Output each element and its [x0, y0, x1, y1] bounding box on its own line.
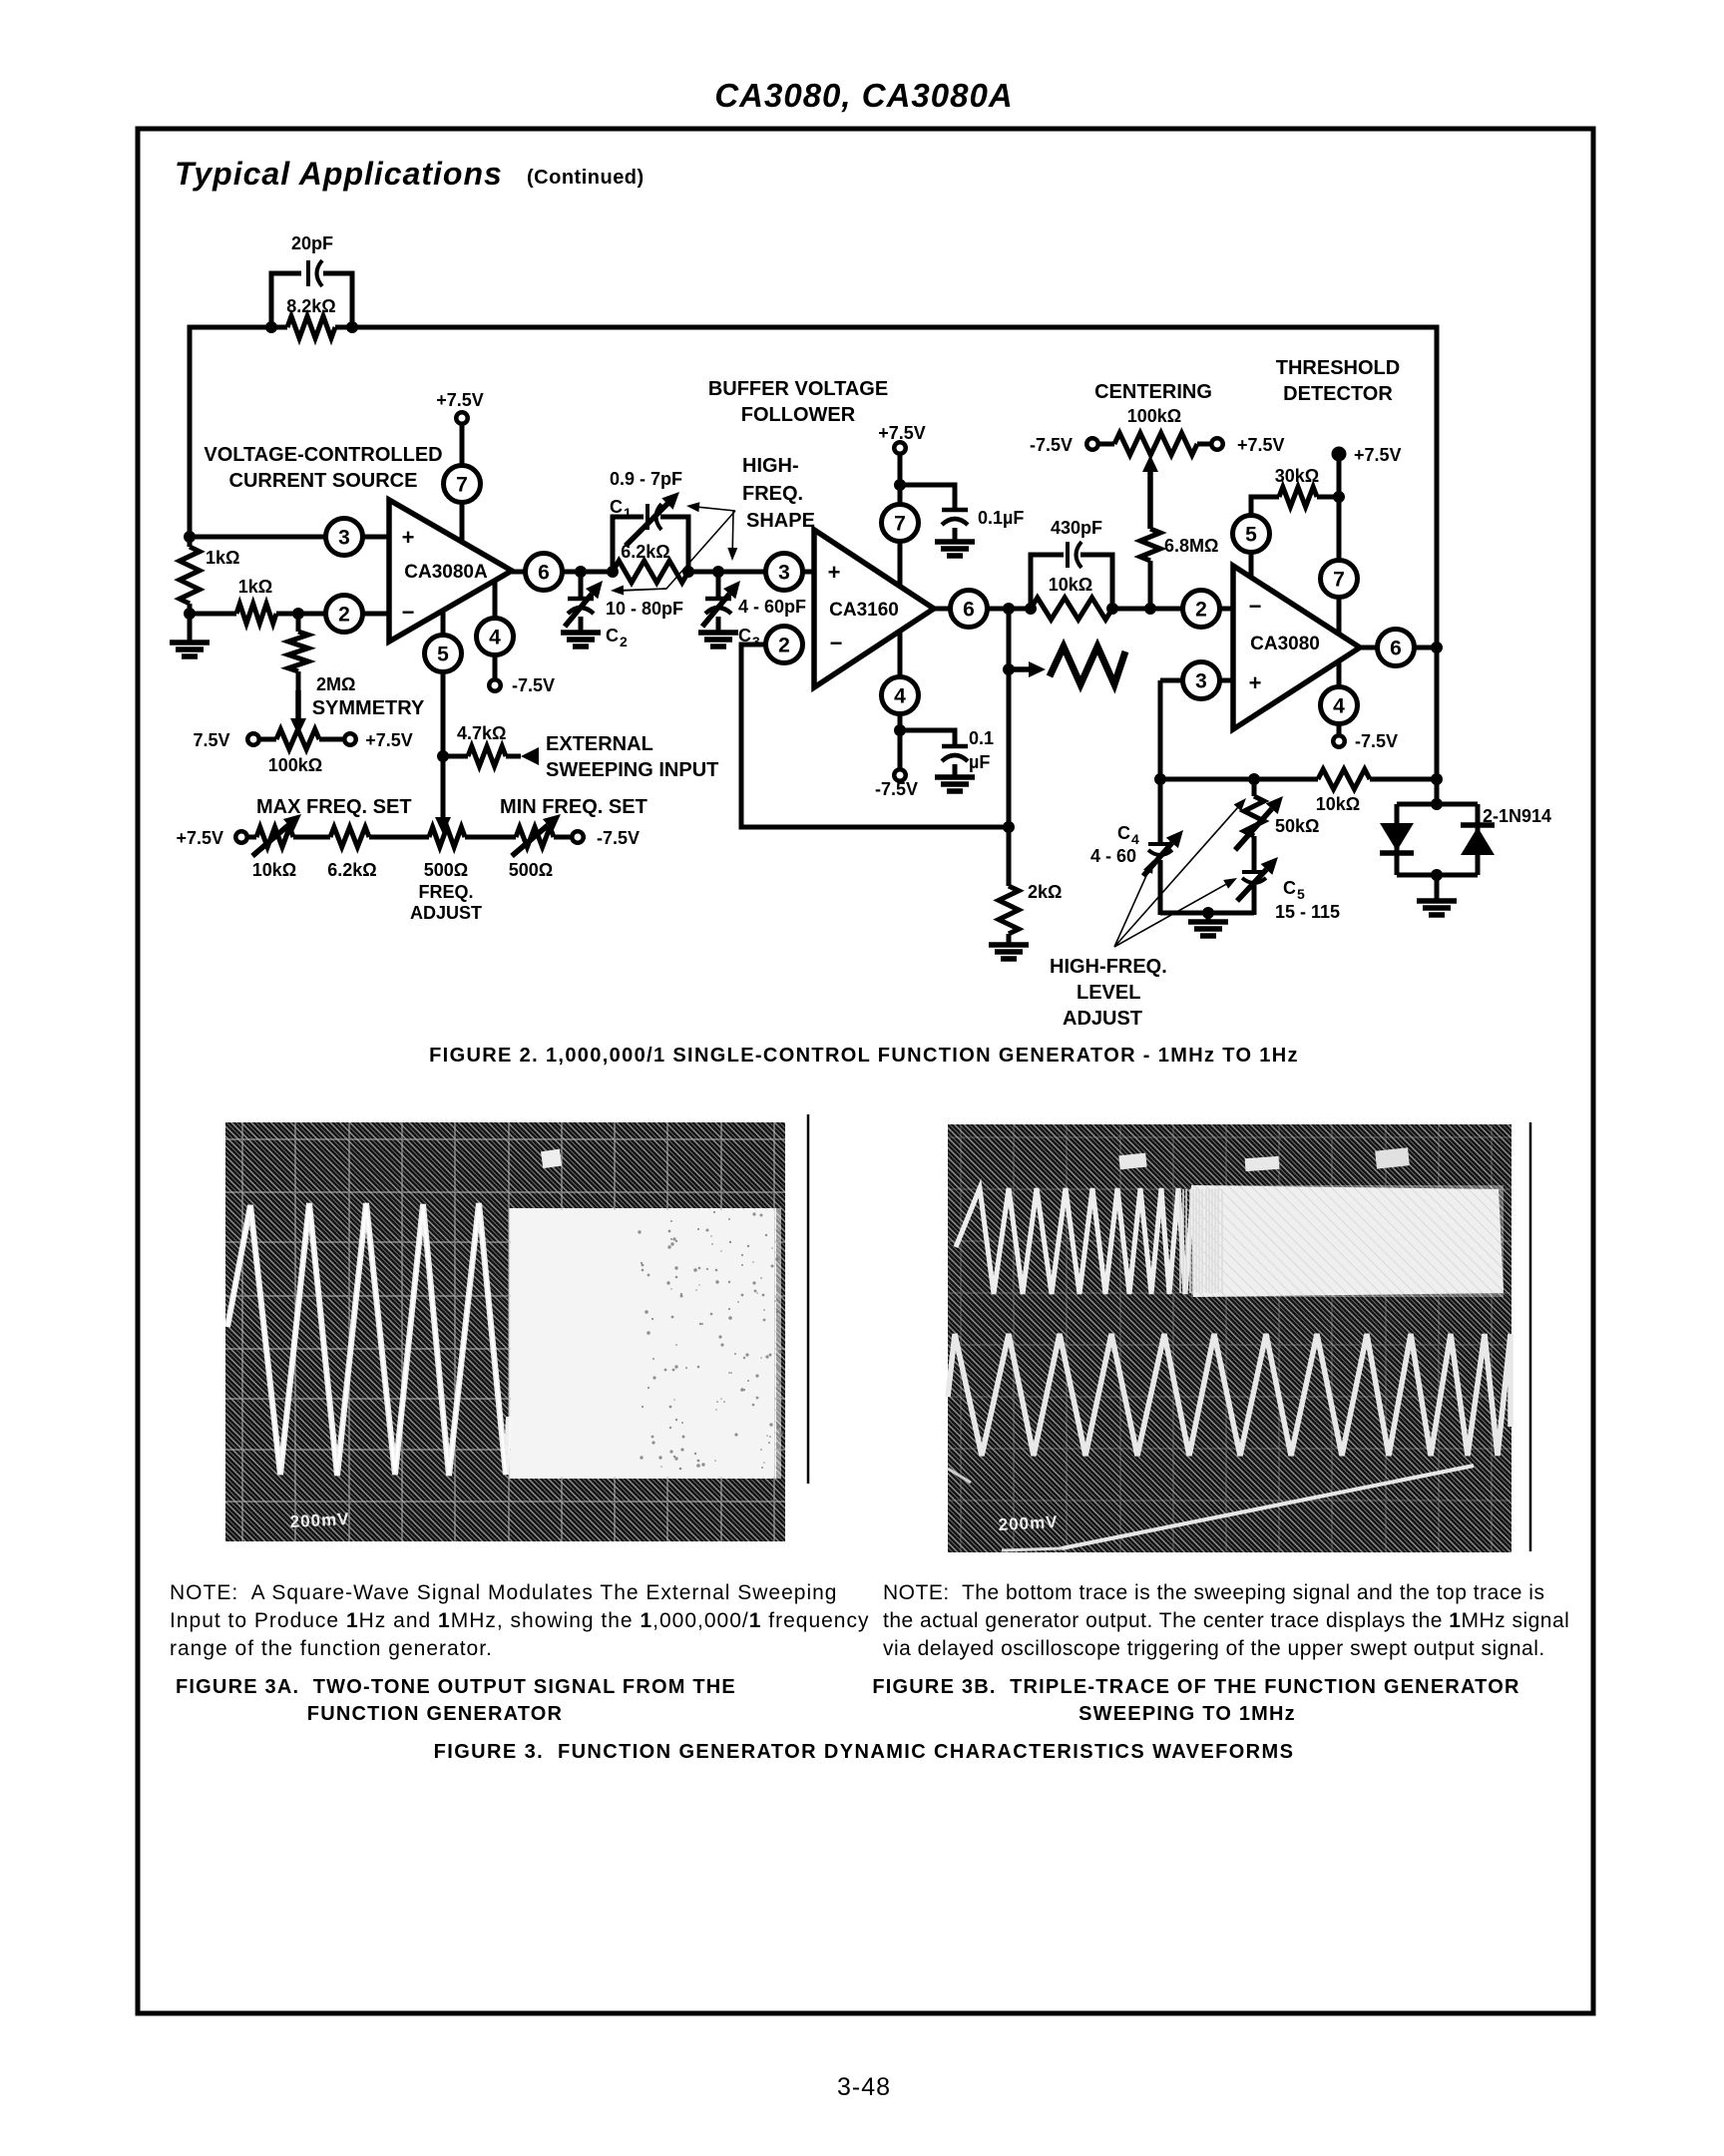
svg-text:7: 7	[456, 474, 468, 497]
resistor 8.2kΩ	[287, 316, 335, 338]
svg-text:200mV: 200mV	[289, 1509, 350, 1531]
svg-text:1: 1	[624, 505, 632, 521]
wire feedback 10k row	[1160, 777, 1318, 782]
capacitor 20pF	[308, 260, 322, 286]
svg-text:100kΩ: 100kΩ	[1127, 406, 1181, 426]
svg-text:-7.5V: -7.5V	[512, 675, 555, 695]
node feedback right	[1431, 773, 1443, 785]
svg-text:ADJUST: ADJUST	[1063, 1008, 1142, 1030]
svg-text:6: 6	[1390, 638, 1402, 660]
terminal -7.5V U3	[1333, 735, 1345, 747]
thin arrow to C2	[623, 511, 735, 591]
svg-text:10kΩ: 10kΩ	[252, 860, 296, 880]
svg-text:+7.5V: +7.5V	[176, 828, 223, 848]
U3 pin 5	[1233, 516, 1270, 553]
svg-text:0.9 - 7pF: 0.9 - 7pF	[610, 469, 682, 489]
svg-text:2: 2	[1195, 599, 1207, 622]
svg-text:10kΩ: 10kΩ	[1049, 575, 1092, 595]
svg-text:SHAPE: SHAPE	[746, 510, 815, 532]
potentiometer 10kΩ variable	[256, 827, 293, 847]
node junction pin2 row left	[184, 608, 196, 620]
svg-text:5: 5	[437, 644, 449, 666]
svg-text:500Ω: 500Ω	[424, 860, 468, 880]
U3 pin 7	[1321, 561, 1358, 598]
ground C4/C5	[1206, 913, 1211, 922]
oscilloscope photo figure 3A	[225, 1122, 785, 1541]
svg-text:3: 3	[1195, 670, 1207, 693]
terminal -7.5V freq row	[572, 831, 584, 843]
wire U3 pin3 vertical branch	[1158, 680, 1163, 842]
outer border frame	[138, 129, 1593, 2013]
capacitor 20pF loop wires	[271, 273, 301, 327]
svg-text:ADJUST: ADJUST	[410, 903, 482, 923]
svg-text:2: 2	[778, 635, 790, 657]
centering wiper arrow	[1142, 455, 1158, 529]
svg-text:FOLLOWER: FOLLOWER	[741, 404, 856, 426]
resistor 1kΩ horizontal	[236, 604, 276, 624]
svg-text:+: +	[1249, 670, 1262, 695]
svg-text:DETECTOR: DETECTOR	[1283, 383, 1393, 405]
svg-text:10 - 80pF: 10 - 80pF	[606, 599, 683, 619]
svg-text:(Continued): (Continued)	[527, 167, 645, 189]
svg-text:+7.5V: +7.5V	[1354, 445, 1402, 465]
node 50k tap	[1248, 773, 1260, 785]
node C2 tap	[575, 566, 587, 578]
svg-text:CURRENT SOURCE: CURRENT SOURCE	[229, 470, 418, 492]
potentiometer CENTERING 100k	[1098, 442, 1114, 447]
node bottom center	[1202, 907, 1214, 919]
node: rail junction left	[265, 321, 277, 333]
svg-text:2: 2	[338, 604, 350, 627]
svg-text:4: 4	[894, 685, 906, 708]
svg-text:MAX FREQ. SET: MAX FREQ. SET	[256, 796, 412, 818]
svg-text:10kΩ: 10kΩ	[1316, 794, 1360, 814]
thin arrow to C5	[1114, 878, 1237, 947]
U3 pin 2	[1183, 591, 1220, 628]
svg-text:range of the function generato: range of the function generator.	[170, 1637, 493, 1660]
svg-text:FREQ.: FREQ.	[742, 483, 803, 505]
svg-text:NOTE: A Square-Wave Signal Mo: NOTE: A Square-Wave Signal Modulates The…	[170, 1581, 838, 1604]
svg-text:HIGH-FREQ.: HIGH-FREQ.	[1050, 956, 1167, 978]
node output junction	[1003, 603, 1015, 615]
diode D2 (anode bottom)	[1461, 822, 1495, 828]
U2 pin 6 output	[934, 607, 1031, 612]
capacitor C3 variable 4-60pF	[716, 572, 721, 599]
node feedback junction	[1003, 821, 1015, 833]
svg-text:CA3080, CA3080A: CA3080, CA3080A	[714, 77, 1013, 114]
svg-text:200mV: 200mV	[998, 1512, 1059, 1534]
svg-text:500Ω: 500Ω	[509, 860, 553, 880]
wire: right vertical from rail to CA3080 output	[1435, 325, 1440, 807]
svg-text:5: 5	[1245, 524, 1257, 547]
svg-text:3: 3	[338, 527, 350, 550]
svg-text:8.2kΩ: 8.2kΩ	[286, 296, 335, 316]
svg-text:SWEEPING TO 1MHz: SWEEPING TO 1MHz	[1078, 1703, 1296, 1725]
svg-text:CA3080A: CA3080A	[404, 562, 488, 583]
svg-text:FIGURE 3. FUNCTION GENERATOR: FIGURE 3. FUNCTION GENERATOR DYNAMIC CHA…	[434, 1741, 1295, 1763]
terminal -7.5V U1	[489, 679, 501, 691]
wire: inverting input row U1 pin 2	[190, 612, 236, 617]
svg-text:6.2kΩ: 6.2kΩ	[327, 860, 376, 880]
node junction 2M tap	[292, 608, 304, 620]
svg-text:15 - 115: 15 - 115	[1275, 902, 1340, 922]
thin arrow to C4	[1114, 860, 1153, 947]
thin arrow to C3	[727, 511, 737, 561]
svg-text:4: 4	[1131, 831, 1139, 847]
node 0.1uF tap upper	[894, 479, 906, 491]
diode pair 2-1N914	[1397, 802, 1478, 807]
svg-text:+7.5V: +7.5V	[436, 390, 484, 410]
node feedback left	[1154, 773, 1166, 785]
svg-text:SWEEPING INPUT: SWEEPING INPUT	[546, 759, 718, 781]
ground left branch	[170, 643, 210, 656]
wire: top feedback rail	[190, 325, 287, 330]
svg-text:4: 4	[489, 627, 501, 649]
node wiper tap	[1003, 663, 1015, 675]
svg-text:-7.5V: -7.5V	[875, 779, 918, 799]
oscilloscope photo figure 3B	[948, 1124, 1511, 1552]
svg-text:Input to Produce 1Hz and 1MHz,: Input to Produce 1Hz and 1MHz, showing t…	[170, 1609, 869, 1632]
svg-text:1kΩ: 1kΩ	[206, 548, 239, 568]
capacitor 0.1uF upper	[900, 485, 955, 510]
svg-text:4: 4	[1333, 695, 1345, 718]
svg-text:7: 7	[894, 513, 906, 536]
ground diodes	[1435, 875, 1440, 901]
svg-text:-7.5V: -7.5V	[1030, 435, 1073, 455]
node diode top	[1431, 798, 1443, 810]
node C1 right	[682, 566, 694, 578]
op-amp U3 CA3080	[1337, 454, 1342, 639]
node C1 left	[607, 566, 619, 578]
capacitor 430pF	[1068, 542, 1081, 568]
resistor 6.2kΩ freq row	[330, 827, 369, 847]
svg-text:-7.5V: -7.5V	[1355, 731, 1398, 751]
note under figure 3B	[883, 1581, 1569, 1660]
ground 2k	[989, 945, 1029, 959]
svg-text:the actual generator output. T: the actual generator output. The center …	[883, 1609, 1569, 1632]
resistor 4.7kΩ external sweeping input	[443, 754, 468, 759]
svg-text:HIGH-: HIGH-	[742, 455, 799, 477]
node C3 tap	[712, 566, 724, 578]
svg-text:C: C	[606, 626, 619, 646]
svg-text:+: +	[828, 560, 841, 585]
U2 pin 2	[766, 627, 803, 663]
capacitor C2 variable 10-80pF	[579, 572, 584, 599]
svg-text:C: C	[1283, 878, 1296, 898]
svg-text:3-48: 3-48	[837, 2073, 891, 2101]
svg-text:6.8MΩ: 6.8MΩ	[1164, 536, 1218, 556]
svg-text:µF: µF	[969, 752, 990, 772]
wire vertical 2k branch	[1007, 609, 1012, 886]
resistor 10kΩ feedback	[1318, 769, 1370, 789]
U3 pin 4	[1321, 687, 1358, 724]
svg-text:EXTERNAL: EXTERNAL	[546, 733, 653, 755]
svg-text:NOTE: The bottom trace is the: NOTE: The bottom trace is the sweeping s…	[883, 1581, 1544, 1604]
U1 pin 3	[326, 519, 363, 556]
U1 pin 7	[444, 466, 481, 503]
node 6.8M tap	[1144, 603, 1156, 615]
svg-text:4 - 60pF: 4 - 60pF	[738, 597, 806, 617]
resistor 6.2kΩ	[613, 561, 688, 583]
node junction pin3 row	[184, 531, 196, 543]
svg-text:CENTERING: CENTERING	[1094, 381, 1212, 403]
wire: left vertical branch	[188, 325, 193, 548]
svg-text:2MΩ: 2MΩ	[316, 674, 355, 694]
note under figure 3A	[170, 1581, 869, 1660]
U3 pin 6 output	[1360, 646, 1437, 650]
svg-text:3: 3	[778, 562, 790, 585]
svg-text:FREQ.: FREQ.	[418, 882, 473, 902]
svg-text:CA3160: CA3160	[829, 600, 899, 621]
thin arrow to C1	[686, 502, 735, 512]
wire: non-inverting input row U1 pin 3	[190, 535, 389, 540]
svg-text:THRESHOLD: THRESHOLD	[1276, 357, 1400, 379]
resistor 2kΩ	[999, 886, 1019, 934]
diode D1 (anode top)	[1380, 823, 1414, 851]
U2 pin 4	[882, 677, 919, 714]
svg-text:−: −	[1249, 594, 1262, 619]
U1 pin 5	[425, 636, 462, 672]
svg-text:FUNCTION GENERATOR: FUNCTION GENERATOR	[307, 1703, 563, 1725]
potentiometer 500Ω variable	[516, 827, 554, 847]
terminal +7.5V freq row	[235, 831, 247, 843]
svg-text:LEVEL: LEVEL	[1077, 982, 1140, 1004]
node U3 out junction	[1431, 642, 1443, 653]
svg-text:1kΩ: 1kΩ	[238, 577, 272, 597]
svg-text:50kΩ: 50kΩ	[1275, 816, 1319, 836]
U3 pin 3	[1183, 662, 1220, 699]
svg-text:FIGURE 2. 1,000,000/1 SINGLE-: FIGURE 2. 1,000,000/1 SINGLE-CONTROL FUN…	[429, 1045, 1299, 1067]
svg-text:C: C	[1117, 823, 1130, 843]
node diode bottom	[1431, 869, 1443, 881]
potentiometer 500Ω	[429, 827, 465, 847]
svg-text:+7.5V: +7.5V	[1237, 435, 1285, 455]
U1 pin 4 wire	[493, 581, 498, 680]
resistor 10kΩ 430pF loop	[1031, 598, 1112, 620]
potentiometer SYMMETRY 100k	[253, 737, 276, 742]
U1 pin 4	[477, 619, 514, 655]
photo 3B edge line	[1529, 1122, 1532, 1551]
svg-text:FIGURE 3A. TWO-TONE OUTPUT SI: FIGURE 3A. TWO-TONE OUTPUT SIGNAL FROM T…	[176, 1676, 736, 1698]
capacitor 0.1uF lower	[900, 730, 955, 746]
capacitor C1 loop wires	[613, 517, 644, 572]
capacitor C4 variable 4-60	[1148, 844, 1172, 855]
svg-text:5: 5	[1297, 886, 1305, 902]
terminal +7.5V U3 (solid)	[1332, 447, 1347, 462]
capacitor C5 variable 15-115	[1242, 872, 1266, 883]
svg-text:4.7kΩ: 4.7kΩ	[457, 723, 506, 743]
freq adjust row wires	[247, 835, 256, 840]
node 430pF right	[1106, 603, 1118, 615]
wiper arrow to centering resistor body	[1009, 661, 1046, 677]
svg-text:6: 6	[963, 599, 975, 622]
svg-text:30kΩ: 30kΩ	[1275, 466, 1319, 486]
wire U2 out to U3 pin 2	[1112, 607, 1233, 612]
svg-text:2kΩ: 2kΩ	[1028, 882, 1062, 902]
U3 pin 3 wire	[1160, 678, 1233, 683]
svg-text:20pF: 20pF	[291, 233, 333, 253]
terminal +7.5V U2	[894, 442, 906, 454]
node 30k junction	[1333, 491, 1345, 503]
svg-text:3: 3	[752, 634, 760, 649]
terminal -7.5V U2	[894, 769, 906, 781]
terminal +7.5V U1	[456, 412, 468, 424]
svg-text:+7.5V: +7.5V	[878, 423, 926, 443]
wire feedback U2 pin2	[741, 645, 1009, 827]
wire: U1 output row to U2 pin 3	[512, 570, 613, 575]
node 0.1uF tap lower	[894, 724, 906, 736]
svg-text:−: −	[830, 631, 843, 655]
svg-text:CA3080: CA3080	[1250, 634, 1320, 654]
capacitor C1 variable 0.9-7pF	[647, 504, 661, 530]
svg-text:+: +	[402, 525, 415, 550]
resistor body zigzag (centering pot element)	[1050, 647, 1125, 684]
svg-text:100kΩ: 100kΩ	[268, 755, 322, 775]
photo 3A edge line	[807, 1114, 810, 1484]
svg-text:FIGURE 3B. TRIPLE-TRACE OF TH: FIGURE 3B. TRIPLE-TRACE OF THE FUNCTION …	[872, 1676, 1519, 1698]
capacitor 430pF loop wires	[1031, 555, 1064, 609]
potentiometer 50kΩ	[1252, 779, 1257, 796]
U1 pin 5 wire	[441, 610, 446, 825]
svg-text:SYMMETRY: SYMMETRY	[312, 697, 425, 719]
U2 pin 3	[766, 554, 803, 591]
node 430pF left	[1025, 603, 1037, 615]
svg-text:C: C	[610, 497, 623, 517]
svg-text:0.1: 0.1	[969, 728, 994, 748]
op-amp U2 CA3160	[898, 454, 903, 586]
svg-text:7: 7	[1333, 569, 1345, 592]
svg-text:+7.5V: +7.5V	[365, 730, 413, 750]
U1 pin 6	[526, 554, 563, 591]
svg-text:BUFFER VOLTAGE: BUFFER VOLTAGE	[708, 378, 888, 400]
resistor 6.8MΩ	[1140, 529, 1160, 561]
svg-text:VOLTAGE-CONTROLLED: VOLTAGE-CONTROLLED	[204, 444, 442, 466]
wire symmetry wiper with arrow	[290, 690, 306, 735]
U2 pin 7	[882, 505, 919, 542]
U1 pin 2	[326, 596, 363, 633]
svg-text:6: 6	[538, 562, 550, 585]
svg-text:2-1N914: 2-1N914	[1483, 806, 1551, 826]
resistor 1kΩ vertical	[180, 547, 200, 604]
resistor 2MΩ	[296, 614, 301, 632]
svg-text:2: 2	[620, 634, 628, 649]
svg-text:via delayed oscilloscope trigg: via delayed oscilloscope triggering of t…	[883, 1637, 1545, 1660]
svg-text:MIN FREQ. SET: MIN FREQ. SET	[500, 796, 647, 818]
wire C4/C5 bottom	[1160, 911, 1254, 916]
svg-text:Typical Applications: Typical Applications	[175, 156, 503, 192]
svg-text:0.1µF: 0.1µF	[978, 508, 1024, 528]
wire pin5 to freq adjust arrow	[435, 817, 451, 834]
thin arrow to 50k	[1114, 798, 1246, 947]
svg-text:−: −	[402, 600, 415, 625]
node: rail junction right	[346, 321, 358, 333]
svg-text:-7.5V: -7.5V	[597, 828, 640, 848]
svg-text:7.5V: 7.5V	[193, 730, 229, 750]
U3 pin 5 wire and resistor 30k	[1251, 497, 1279, 577]
svg-text:4 - 60: 4 - 60	[1090, 846, 1136, 866]
op-amp U1 CA3080A	[460, 424, 465, 542]
svg-text:430pF: 430pF	[1051, 518, 1102, 538]
